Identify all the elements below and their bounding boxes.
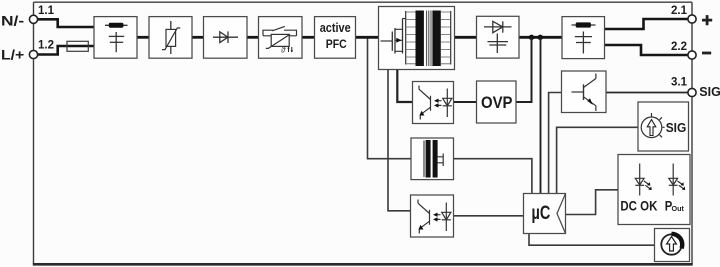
wire PFC node down to aux transformer	[368, 39, 412, 159]
wire uC down to potentiometer	[529, 234, 655, 246]
optocoupler U1	[413, 82, 454, 124]
frame right	[691, 2, 693, 264]
MOSFET	[381, 40, 393, 42]
svg-text:µC: µC	[532, 203, 551, 224]
svg-text:ϑ: ϑ	[281, 46, 286, 55]
wire dot A down to OVP	[516, 37, 532, 102]
wire L input through fuse	[38, 46, 95, 55]
svg-text:1.2: 1.2	[38, 40, 54, 52]
wire transistor base to uC	[549, 93, 562, 194]
rectifier block	[477, 16, 520, 58]
wire converter bottom to optocoupler1	[397, 70, 412, 103]
wire SIG adjuster to uC	[557, 127, 638, 193]
svg-text:2.2: 2.2	[671, 41, 687, 53]
frame top	[34, 1, 693, 3]
inrush limiter NTC block	[259, 17, 303, 59]
fuse F1	[67, 41, 88, 51]
svg-text:active: active	[320, 20, 351, 35]
svg-text:PFC: PFC	[326, 39, 347, 51]
wire optocoupler2 to uC	[454, 215, 524, 217]
terminal 1.2	[29, 50, 37, 58]
SIG adjuster block	[638, 102, 689, 151]
wire aux transformer to uC	[454, 159, 532, 194]
OVP block	[477, 81, 517, 123]
optocoupler U2	[411, 195, 454, 237]
wire output + to terminal 2.1	[605, 19, 689, 29]
frame left	[33, 2, 35, 264]
frame bottom	[33, 263, 693, 266]
node junction dot A on DC bus	[529, 35, 534, 40]
label - output	[702, 52, 711, 55]
LED indicator block	[618, 155, 690, 225]
terminal 2.1	[688, 15, 696, 23]
input filter block	[94, 17, 137, 59]
wire bus block2-block3	[192, 36, 204, 39]
potentiometer adjuster block	[655, 229, 690, 262]
svg-text:3.1: 3.1	[671, 76, 688, 88]
terminal 3.1	[688, 88, 696, 96]
diode block	[204, 17, 248, 59]
wire dot B down to uC	[540, 37, 542, 193]
auxiliary transformer T2	[411, 138, 454, 180]
svg-text:OVP: OVP	[481, 93, 513, 112]
wire N input	[38, 19, 95, 27]
wire optocoupler1 to OVP	[454, 101, 477, 103]
LED DC OK	[635, 164, 651, 196]
svg-text:Out: Out	[672, 204, 685, 213]
varistor block	[149, 17, 192, 59]
active PFC block	[315, 17, 356, 59]
wire output - to terminal 2.2	[605, 45, 689, 55]
svg-text:N/-: N/-	[1, 13, 25, 29]
wire bus block4-block5	[302, 36, 315, 39]
node junction dot B on DC bus	[538, 35, 543, 40]
svg-text:DC OK: DC OK	[620, 198, 657, 213]
wire DC bus rectifier-output filter	[519, 36, 562, 39]
svg-text:SIG: SIG	[699, 85, 720, 99]
wire DC bus converter-rectifier	[455, 36, 477, 39]
wire converter bottom to optocoupler2	[388, 70, 411, 211]
wire transistor to terminal 3.1	[606, 92, 688, 94]
svg-text:L/+: L/+	[1, 46, 24, 62]
wire bus PFC-converter	[356, 36, 379, 39]
terminal 2.2	[688, 51, 696, 59]
label + output	[702, 15, 712, 25]
wire bus block1-block2	[137, 36, 149, 39]
converter block with MOSFET Q1 and transformer T1	[379, 7, 455, 70]
terminal 1.1	[29, 15, 37, 23]
wire bus block3-block4	[247, 36, 259, 39]
transistor Q2 block	[562, 71, 607, 113]
wire uC to LED block	[566, 190, 619, 215]
transformer windings	[403, 18, 406, 20]
LED P out	[669, 164, 685, 196]
svg-text:2.1: 2.1	[671, 5, 688, 17]
microcontroller uC block	[524, 194, 566, 234]
svg-text:SIG: SIG	[666, 120, 687, 135]
svg-text:1.1: 1.1	[38, 5, 55, 17]
output filter block	[562, 17, 605, 59]
